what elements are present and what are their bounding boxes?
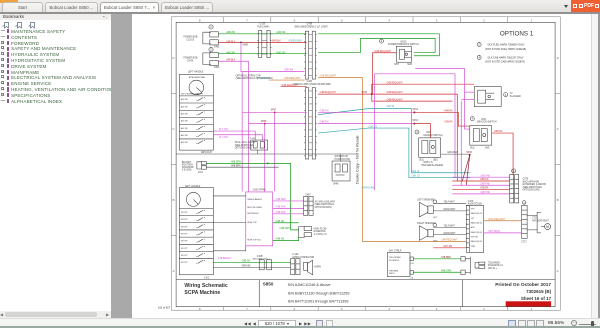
wire green day ctrlr 1 (413, 258, 460, 260)
wire black to horn (213, 266, 290, 268)
svg-text:GRY: GRY (471, 208, 476, 210)
wire CAN LO teal (318, 128, 470, 177)
svg-text:CAN LO: CAN LO (411, 175, 420, 178)
svg-text:C-104: C-104 (250, 138, 255, 140)
svg-text:H4B BRN: H4B BRN (231, 165, 241, 167)
wire to C979 (452, 184, 509, 186)
svg-text:M: M (546, 225, 549, 229)
svg-text:RADIO(S) 4-1: RADIO(S) 4-1 (471, 221, 483, 224)
svg-text:H4B RA: H4B RA (444, 110, 453, 113)
wire pink vertical mid (460, 101, 462, 185)
svg-text:Dealer Copy -- Not for Resale: Dealer Copy -- Not for Resale (356, 135, 360, 184)
svg-text:24R BLK: 24R BLK (272, 40, 282, 42)
svg-text:SP10: SP10 (362, 92, 368, 94)
svg-text:SW OPT: SW OPT (181, 262, 188, 264)
wire to C979 (452, 176, 509, 178)
svg-text:C479: C479 (433, 217, 437, 219)
svg-text:Sheet 16 of 17: Sheet 16 of 17 (521, 296, 552, 301)
svg-text:AUX SW: AUX SW (181, 113, 188, 116)
svg-text:5: 5 (341, 18, 343, 22)
svg-text:H4B 200: H4B 200 (276, 32, 286, 34)
svg-text:THROMBI: THROMBI (389, 270, 399, 272)
svg-text:C4B PNK: C4B PNK (276, 212, 286, 214)
sidebar (0, 14, 111, 311)
svg-text:C4B REQUANT: C4B REQUANT (386, 91, 403, 94)
wire red from switch down (372, 53, 396, 94)
svg-text:BKB CASE DYNO 1: BKB CASE DYNO 1 (253, 258, 270, 261)
svg-text:OPTIONS DWG): OPTIONS DWG) (315, 207, 332, 209)
svg-text:C480: C480 (433, 241, 437, 243)
svg-text:SP06: SP06 (466, 152, 472, 154)
svg-text:OPTIONS 1: OPTIONS 1 (500, 31, 534, 38)
svg-text:GREEN BEACH: GREEN BEACH (247, 198, 262, 201)
svg-text:W6 BACKUP: W6 BACKUP (335, 155, 349, 158)
svg-text:GRN WHT: GRN WHT (201, 152, 213, 154)
svg-text:(SEE ADDITIONAL: (SEE ADDITIONAL (235, 144, 255, 147)
svg-text:H4B 300: H4B 300 (276, 52, 286, 54)
svg-text:CAN HI: CAN HI (411, 170, 419, 173)
svg-text:AUX: AUX (471, 226, 476, 229)
svg-text:EMS (AWS/CREW) 2 (LT LIGHT): EMS (AWS/CREW) 2 (LT LIGHT) (295, 26, 329, 29)
svg-text:[A1]: [A1] (470, 146, 474, 149)
border frame inner (176, 22, 555, 306)
switch W41 BEACON (470, 117, 474, 121)
svg-text:B: B (557, 198, 559, 202)
title block (176, 279, 555, 281)
svg-text:GRY RD(S): GRY RD(S) (488, 231, 500, 233)
svg-text:C403: C403 (214, 67, 220, 69)
junction SP10 (318, 93, 372, 95)
wire dark red diagonals (462, 155, 469, 181)
svg-text:7302 BRAD: 7302 BRAD (488, 261, 500, 264)
svg-text:HIGH FLOW: HIGH FLOW (314, 228, 328, 230)
svg-text:HORN: HORN (314, 266, 321, 268)
svg-text:BACKUP/HAND: BACKUP/HAND (523, 180, 540, 183)
svg-text:CAB REQUANT: CAB REQUANT (374, 50, 391, 53)
svg-text:C4B REQUANT: C4B REQUANT (284, 77, 301, 80)
svg-text:H4B GN: H4B GN (276, 239, 285, 241)
motor M (545, 224, 551, 230)
svg-text:2-5L: 2-5L (410, 263, 414, 265)
wire orange CAB REQUANT long run (318, 78, 466, 242)
svg-text:AUX SW: AUX SW (181, 105, 188, 108)
svg-text:HORN CONNECTOR: HORN CONNECTOR (292, 257, 314, 259)
wire pink bus upper (415, 69, 469, 130)
svg-text:1-B 2: 1-B 2 (204, 277, 210, 279)
svg-text:AIR SEAT/SEAT: AIR SEAT/SEAT (532, 219, 549, 222)
pink vertical to switch panel (241, 72, 243, 192)
wire pink SP08 (248, 123, 306, 125)
wire handle to panel (213, 195, 245, 197)
svg-text:(NOT IN STD CAB HARN 7302870): (NOT IN STD CAB HARN 7302870) (485, 61, 525, 64)
wire H4B 300 green (218, 53, 306, 55)
wire red branch mid (372, 94, 458, 181)
svg-text:[A2]: [A2] (485, 146, 489, 149)
wire pink panel out 2 (273, 208, 304, 210)
component HIGH FLOW SOLENOID (299, 226, 312, 237)
svg-text:C4B PNK: C4B PNK (276, 207, 286, 209)
component T3 (474, 87, 501, 107)
svg-text:ATTACHMENT BALL: ATTACHMENT BALL (189, 76, 206, 79)
svg-text:Wiring Schematic: Wiring Schematic (184, 283, 227, 289)
wire speaker (433, 202, 466, 204)
svg-text:(SPECIAL AWS STAND W/JOB GRP): (SPECIAL AWS STAND W/JOB GRP) (293, 83, 332, 86)
wire speaker (433, 226, 466, 228)
svg-text:(NOT IN STD FUEL HARN 7146218): (NOT IN STD FUEL HARN 7146218) (485, 48, 526, 51)
svg-text:(SEE ADDITIONAL OPTIONS DWG): (SEE ADDITIONAL OPTIONS DWG) (236, 77, 274, 80)
svg-text:S/N AJMC11246 & Above: S/N AJMC11246 & Above (288, 283, 331, 287)
switch W45 HAZARD (415, 130, 419, 134)
svg-text:C4B REQUANT: C4B REQUANT (282, 84, 299, 87)
option marker circle 2 (C402) (209, 25, 213, 29)
svg-text:C: C (557, 127, 560, 131)
wire orange to C717 (484, 220, 522, 222)
svg-text:AC W/R AUXILIARY: AC W/R AUXILIARY (315, 200, 336, 203)
svg-text:PWR: PWR (471, 246, 476, 248)
svg-text:W41: W41 (481, 119, 486, 121)
svg-text:AUX SW: AUX SW (181, 134, 188, 137)
wire green panel out 5 (273, 237, 299, 241)
wire pink drop from GMM (241, 42, 305, 71)
svg-text:HAZARD SWITCH: HAZARD SWITCH (423, 134, 442, 137)
wire CAN HI teal (318, 109, 470, 173)
svg-text:[B2]: [B2] (433, 160, 437, 162)
svg-text:7302615 (B): 7302615 (B) (526, 289, 551, 294)
svg-text:C4B RA: C4B RA (444, 121, 453, 124)
wire green inner loop (318, 38, 435, 52)
wire red beacon right (492, 133, 513, 175)
svg-text:AT-1 PIN: AT-1 PIN (219, 128, 228, 131)
tab bar (0, 0, 600, 12)
svg-text:C4B REQUANT: C4B REQUANT (320, 91, 337, 94)
svg-text:DLX CAB HARN 7361237 ONLY: DLX CAB HARN 7361237 ONLY (488, 56, 524, 59)
svg-text:4: 4 (388, 18, 390, 22)
svg-text:(P)GROUND: (P)GROUND (289, 40, 303, 42)
svg-text:OPTIONS DWG): OPTIONS DWG) (235, 148, 252, 150)
svg-text:LEFT HANDLE: LEFT HANDLE (188, 71, 204, 74)
svg-text:C4B GN: C4B GN (242, 260, 251, 262)
svg-text:SP13: SP13 (412, 120, 418, 122)
svg-text:C4B BRD: C4B BRD (441, 257, 451, 259)
svg-text:2: 2 (210, 25, 212, 29)
svg-text:C4B BRIGHT: C4B BRIGHT (218, 258, 232, 260)
option marker circle 2 (C403) (209, 47, 213, 51)
wire green long (206, 163, 298, 229)
svg-text:H4B GRN: H4B GRN (441, 270, 451, 272)
svg-text:POSITION SW: POSITION SW (335, 159, 351, 161)
svg-text:7: 7 (246, 18, 248, 22)
svg-text:C4B PIN: C4B PIN (320, 111, 329, 113)
wire GRY RD (433, 247, 466, 249)
svg-text:H0B RA: H0B RA (480, 178, 489, 181)
svg-text:C4B PNK: C4B PNK (480, 192, 490, 194)
svg-text:SW OPT: SW OPT (181, 212, 188, 214)
wire pink panel out 3 (273, 213, 304, 215)
svg-text:H4B GRN: H4B GRN (231, 162, 241, 164)
svg-text:AUX SW: AUX SW (181, 98, 188, 101)
switch W015 POWER BOB/HVCS (379, 39, 383, 43)
svg-text:C4B REQUANT: C4B REQUANT (386, 98, 403, 101)
wire red left stub (281, 86, 307, 88)
junction SP06 (469, 154, 471, 156)
svg-text:DATA: DATA (187, 60, 193, 63)
svg-text:SW OPT: SW OPT (181, 241, 188, 243)
svg-text:C717: C717 (521, 241, 527, 243)
svg-text:C402: C402 (214, 47, 220, 49)
wire green day ctrlr 2 (413, 271, 460, 273)
svg-text:LEFT/RIGHT: LEFT/RIGHT (247, 213, 259, 215)
connector C979 (512, 169, 516, 173)
svg-text:1: 1 (530, 18, 532, 22)
svg-text:B4M: B4M (334, 183, 339, 185)
wire green panel out 4 (273, 222, 299, 224)
wire speaker (433, 210, 466, 212)
wire pink to C717 (484, 232, 522, 234)
svg-text:SOLENOID: SOLENOID (314, 231, 326, 233)
svg-text:GRN3 WHT: GRN3 WHT (443, 233, 456, 235)
svg-text:HIGH TOP SOL: HIGH TOP SOL (247, 239, 262, 241)
wire pink bus to bundle (374, 74, 455, 177)
svg-text:BEACON SWITCH: BEACON SWITCH (477, 121, 497, 124)
svg-text:DUAL TAIL LIGHTS: DUAL TAIL LIGHTS (235, 141, 256, 144)
svg-text:CLOCK: CLOCK (186, 40, 194, 42)
svg-text:M5T: M5T (394, 64, 399, 66)
svg-text:SCPA Machine: SCPA Machine (184, 290, 220, 296)
wire pink to C-104 a (213, 131, 255, 140)
wire 24R BLK red (218, 41, 306, 43)
svg-text:C4B GRD: C4B GRD (276, 199, 286, 201)
svg-text:DLX FUEL HARN 7266824 ONLY: DLX FUEL HARN 7266824 ONLY (488, 43, 525, 46)
sidebar hscroll (0, 311, 111, 318)
svg-text:S850: S850 (263, 282, 274, 287)
svg-text:SP08: SP08 (261, 121, 267, 123)
option note 2 (477, 43, 481, 47)
svg-text:D: D (557, 56, 560, 60)
svg-text:OPTIONAL SPPRL CVR: OPTIONAL SPPRL CVR (236, 74, 261, 77)
svg-text:H4B 300: H4B 300 (226, 52, 236, 54)
svg-text:GRN BK: GRN BK (242, 265, 251, 267)
svg-text:POWER BOB: POWER BOB (183, 37, 198, 39)
connector C402 (203, 32, 211, 44)
wire hazard to SP06 (441, 153, 470, 155)
wire green to horn (213, 261, 290, 263)
svg-text:612 of 627: 612 of 627 (158, 306, 171, 310)
svg-text:2: 2 (483, 18, 485, 22)
wire pink to C-104 b (213, 135, 262, 140)
svg-text:AT-2 PIN: AT-2 PIN (219, 136, 228, 139)
svg-text:8: 8 (199, 18, 201, 22)
wire red to hazard (414, 124, 430, 138)
svg-text:2-B: 2-B (410, 277, 414, 279)
svg-text:GMM: GMM (242, 45, 248, 47)
svg-text:C478: C478 (307, 24, 313, 26)
svg-text:GRN RA: GRN RA (284, 69, 293, 72)
svg-text:A: A (173, 269, 175, 273)
svg-text:C4B PIN: C4B PIN (320, 122, 329, 124)
svg-text:W015: W015 (400, 41, 407, 43)
svg-text:C4B REQUANT: C4B REQUANT (386, 81, 403, 84)
svg-text:H4B GRN: H4B GRN (280, 228, 290, 230)
svg-text:YEL3 WHT: YEL3 WHT (443, 225, 455, 227)
component TWO SPEED SOLENOID sym (475, 262, 485, 268)
svg-text:H4B RA: H4B RA (494, 130, 503, 133)
divider (111, 14, 132, 318)
svg-text:SW OPT: SW OPT (181, 248, 188, 250)
svg-text:AUX SW: AUX SW (181, 127, 188, 130)
border frame outer (171, 17, 560, 310)
wire H4B 200 green (218, 33, 306, 35)
svg-text:C4B PNK: C4B PNK (480, 175, 490, 177)
svg-text:AUDIO/CD(S): AUDIO/CD(S) (468, 203, 482, 206)
svg-text:SP12: SP12 (412, 109, 418, 111)
svg-text:CAB REQUANT: CAB REQUANT (320, 75, 337, 78)
svg-text:W45: W45 (426, 132, 431, 134)
svg-text:24V SYSTEM ACTIVATION: 24V SYSTEM ACTIVATION (181, 92, 204, 95)
wire black bus (176, 150, 356, 154)
svg-text:GRY RD: GRY RD (443, 246, 452, 248)
wire green outer loop (318, 34, 439, 56)
wire pink to SP12 (318, 111, 414, 113)
svg-text:C406: C406 (307, 81, 313, 83)
svg-text:RADIO(S) 2-1: RADIO(S) 2-1 (471, 212, 483, 215)
svg-text:D: D (172, 56, 175, 60)
svg-text:3.1 (S/N) 1 C: 3.1 (S/N) 1 C (314, 234, 328, 236)
svg-text:C4B PNK: C4B PNK (480, 183, 490, 185)
svg-text:SW OPT: SW OPT (181, 255, 188, 257)
svg-text:(P)GROUND: (P)GROUND (362, 187, 376, 189)
svg-text:24R BLK: 24R BLK (226, 59, 236, 61)
wire red to beacon (414, 112, 469, 126)
wire black lower (206, 166, 278, 168)
wire pink to SP13 (318, 123, 414, 125)
svg-text:(TRAILER/FLASHER): (TRAILER/FLASHER) (421, 164, 444, 167)
svg-text:AUX SW: AUX SW (181, 120, 188, 123)
option note 4 (477, 55, 481, 59)
svg-text:C4B REQUANT: C4B REQUANT (441, 239, 458, 242)
wire red branch down (372, 94, 453, 101)
svg-text:AUX SW: AUX SW (181, 141, 188, 144)
wire pink bus left vertical (373, 74, 375, 190)
svg-text:[B1]: [B1] (419, 160, 423, 162)
svg-text:GRY RD: GRY RD (471, 237, 479, 239)
svg-text:POWER BOB/HVCS SWITCH: POWER BOB/HVCS SWITCH (388, 44, 419, 46)
svg-text:6: 6 (294, 18, 296, 22)
status bar (0, 318, 600, 328)
connector C403 (203, 53, 211, 65)
svg-text:(S/N 11 +: (S/N 11 + (488, 268, 498, 270)
svg-text:ATB RA: ATB RA (480, 187, 489, 190)
wire to C979 (452, 193, 509, 195)
svg-text:SW OPT: SW OPT (181, 233, 188, 235)
svg-text:SOLENOID: SOLENOID (389, 260, 400, 262)
svg-text:HIGH TOP: HIGH TOP (247, 222, 257, 224)
wire P-GROUND teal (269, 79, 305, 81)
svg-text:POWER BOB: POWER BOB (183, 57, 198, 59)
svg-text:H4B GN: H4B GN (276, 221, 285, 223)
wire red branch up (372, 84, 474, 94)
wire pink SP07 (242, 111, 306, 113)
svg-text:Printed On October 2017: Printed On October 2017 (495, 282, 551, 288)
svg-text:C979: C979 (523, 178, 529, 180)
svg-text:T3: T3 (510, 93, 513, 95)
svg-text:S/N B3BY11130 through B3BY1125: S/N B3BY11130 through B3BY11259 (288, 291, 350, 295)
page area (132, 14, 591, 318)
svg-text:GRN WHT: GRN WHT (447, 152, 459, 154)
svg-text:SW OPT: SW OPT (181, 219, 188, 221)
svg-text:EXTENDED (LAMP/W): EXTENDED (LAMP/W) (523, 183, 547, 186)
wire 24R BLK lower (218, 61, 248, 191)
toolbar icons (0, 21, 44, 30)
svg-text:M28: M28 (407, 64, 412, 66)
svg-text:YEL4 WHT: YEL4 WHT (443, 202, 455, 204)
svg-text:C4-5: C4-5 (198, 172, 204, 174)
svg-text:SP07: SP07 (271, 110, 277, 112)
svg-text:RADIO(S) 8-1: RADIO(S) 8-1 (471, 240, 483, 243)
svg-text:C-101: C-101 (259, 24, 266, 26)
svg-text:2: 2 (210, 48, 212, 52)
svg-text:LIVE STRAD: LIVE STRAD (253, 189, 267, 192)
svg-text:CAN HI: CAN HI (386, 105, 394, 108)
wire to C979 (452, 189, 509, 191)
svg-text:A: A (557, 269, 559, 273)
svg-text:(P/S) REQUANT: (P/S) REQUANT (488, 218, 506, 221)
svg-text:3-E (S/N): 3-E (S/N) (182, 170, 192, 172)
wire to C979 (452, 180, 509, 182)
svg-text:OPTIONS DWG): OPTIONS DWG) (523, 190, 540, 192)
svg-text:H4B 200: H4B 200 (226, 32, 236, 34)
connector C717 (522, 201, 526, 205)
svg-text:DEUS: DEUS (389, 273, 395, 275)
svg-text:RADIO(S) 6-1: RADIO(S) 6-1 (471, 231, 483, 234)
svg-text:LEFT SPEAKER: LEFT SPEAKER (417, 199, 434, 202)
svg-text:(SEE ADDITIONAL: (SEE ADDITIONAL (315, 203, 335, 206)
svg-text:(SEE ADDITIONAL: (SEE ADDITIONAL (523, 186, 543, 189)
svg-text:SLAGGER: SLAGGER (510, 95, 521, 98)
svg-text:FUEL MAIN: FUEL MAIN (257, 26, 269, 29)
svg-text:B: B (173, 198, 175, 202)
wire speaker (433, 234, 466, 236)
junction GMM (240, 41, 242, 43)
svg-text:RECP BLOWER: RECP BLOWER (247, 207, 262, 209)
svg-text:Y4T: Y4T (471, 218, 475, 220)
svg-text:S/N B47T11001 through B47T1139: S/N B47T11001 through B47T11399 (288, 300, 349, 304)
svg-text:SOLENOID 2.1: SOLENOID 2.1 (488, 265, 504, 267)
connector C48 (461, 257, 470, 275)
svg-text:SW OPT: SW OPT (181, 226, 188, 228)
svg-text:C: C (172, 127, 175, 131)
wire pink panel out 1 (273, 200, 304, 202)
svg-text:24R BLK: 24R BLK (226, 42, 236, 44)
svg-text:CAN LO: CAN LO (368, 126, 377, 129)
svg-text:GRN4 WHT: GRN4 WHT (443, 209, 456, 211)
svg-text:3: 3 (436, 18, 438, 22)
svg-text:C-100: C-100 (292, 254, 299, 256)
